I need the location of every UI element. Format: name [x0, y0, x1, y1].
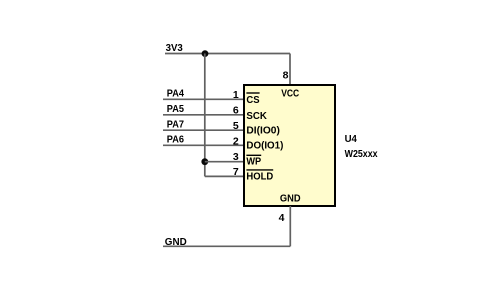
svg-text:PA7: PA7	[167, 118, 184, 130]
svg-text:7: 7	[233, 166, 239, 178]
svg-text:1: 1	[233, 89, 239, 101]
svg-text:3: 3	[233, 151, 239, 163]
svg-text:SCK: SCK	[246, 110, 267, 122]
pin label CS (active low)	[246, 93, 259, 106]
svg-text:W25xxx: W25xxx	[345, 148, 378, 160]
wire WP to pin 3	[205, 161, 244, 163]
svg-text:4: 4	[279, 212, 285, 224]
svg-text:6: 6	[233, 105, 239, 117]
pin label WP (active low)	[246, 155, 261, 167]
svg-text:GND: GND	[165, 236, 187, 248]
svg-text:WP: WP	[246, 156, 261, 168]
svg-text:2: 2	[233, 135, 239, 147]
svg-text:U4: U4	[345, 133, 357, 145]
wire PA5 to pin 6	[163, 114, 244, 116]
svg-text:PA6: PA6	[167, 134, 184, 146]
wire GND horizontal	[163, 245, 290, 247]
svg-text:CS: CS	[246, 94, 259, 106]
wire PA7 to pin 5	[163, 129, 244, 131]
svg-text:PA5: PA5	[167, 103, 184, 115]
svg-text:DI(IO0): DI(IO0)	[246, 125, 280, 137]
wire pin 8 vertical stub	[289, 54, 291, 86]
wire HOLD to pin 7	[205, 175, 244, 177]
svg-text:GND: GND	[280, 192, 301, 204]
IC U4 W25xxx body	[244, 85, 335, 206]
wire 3V3 vertical down to WP/HOLD	[204, 54, 206, 177]
wire pin 4 vertical stub	[289, 206, 291, 246]
pin label HOLD (active low)	[246, 170, 273, 183]
junction node 3V3	[202, 50, 209, 57]
svg-text:DO(IO1): DO(IO1)	[246, 139, 283, 151]
svg-text:8: 8	[283, 70, 289, 82]
wire PA4 to pin 1	[163, 98, 244, 100]
svg-text:5: 5	[233, 120, 239, 132]
svg-text:HOLD: HOLD	[246, 171, 273, 183]
wire 3V3 horizontal to pin 8	[165, 53, 290, 55]
svg-text:VCC: VCC	[281, 88, 299, 100]
svg-text:PA4: PA4	[167, 88, 184, 100]
svg-text:3V3: 3V3	[166, 42, 183, 54]
wire PA6 to pin 2	[163, 144, 244, 146]
junction node WP	[201, 158, 208, 165]
